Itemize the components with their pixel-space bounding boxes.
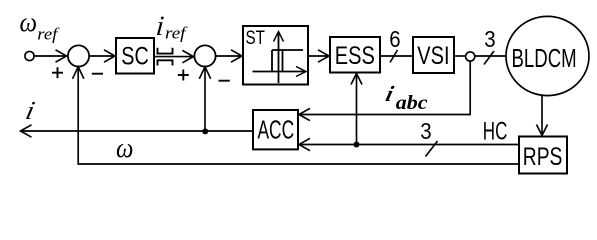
block VSI <box>413 37 454 73</box>
svg-text:BLDCM: BLDCM <box>512 44 577 73</box>
wire input to summing junction 1 <box>34 50 66 62</box>
summing junction 1 <box>68 45 89 66</box>
slash 3-lines near VSI <box>484 51 494 65</box>
svg-text:ω: ω <box>116 131 133 163</box>
slash on hall wire <box>426 141 438 157</box>
svg-text:ω: ω <box>20 7 38 37</box>
junction dot on hall wire <box>354 142 360 148</box>
svg-text:SC: SC <box>121 43 148 71</box>
svg-text:HC: HC <box>483 117 508 145</box>
svg-text:RPS: RPS <box>523 143 563 171</box>
svg-text:3: 3 <box>420 118 431 145</box>
block ACC <box>253 110 298 149</box>
slash 6-lines <box>390 50 398 63</box>
svg-text:3: 3 <box>484 25 495 52</box>
svg-text:VSI: VSI <box>417 42 449 70</box>
summing junction 2 <box>194 45 215 66</box>
svg-text:ST: ST <box>246 26 266 48</box>
block ESS <box>330 37 380 73</box>
block ST <box>243 26 308 85</box>
svg-text:ref: ref <box>165 23 189 42</box>
input terminal <box>25 51 34 60</box>
minus sign at summing junction 1 <box>92 73 103 75</box>
plus sign at summing junction 1 <box>52 67 63 78</box>
hysteresis characteristic icon <box>253 32 307 84</box>
wire VSI to BLDCM <box>454 55 506 57</box>
wire omega feedback RPS to SJ1 <box>73 67 520 164</box>
block RPS <box>519 137 567 174</box>
label i_abc <box>383 82 428 114</box>
wire SJ2 to ST <box>216 50 242 62</box>
label omega_ref <box>20 7 61 43</box>
sampler symbol on SC output wire <box>158 48 173 66</box>
wire junction to SJ2 <box>199 67 210 132</box>
wire i_abc from node to ACC <box>299 61 471 120</box>
svg-text:ACC: ACC <box>258 115 295 144</box>
junction dot on i wire <box>202 128 208 134</box>
wire ACC output i to left <box>21 125 254 137</box>
wire RPS to ACC (hall signals) <box>299 138 519 150</box>
wire ST to ESS <box>308 50 329 62</box>
node circle on VSI-BLDCM wire <box>466 52 475 61</box>
wire ESS to VSI <box>380 55 413 57</box>
wire junction to ESS <box>351 74 362 145</box>
plus sign at summing junction 2 <box>178 70 189 81</box>
label i_ref <box>155 11 189 42</box>
motor BLDCM <box>506 16 589 95</box>
minus sign at summing junction 2 <box>219 80 230 82</box>
svg-text:6: 6 <box>389 26 400 53</box>
svg-text:ESS: ESS <box>335 42 375 70</box>
svg-text:ref: ref <box>37 24 60 43</box>
wire SJ1 to SC <box>89 50 115 62</box>
block SC <box>116 38 154 74</box>
wire SC to summing junction 2 <box>154 50 193 62</box>
wire BLDCM to RPS <box>537 95 548 135</box>
svg-text:abc: abc <box>396 91 428 114</box>
